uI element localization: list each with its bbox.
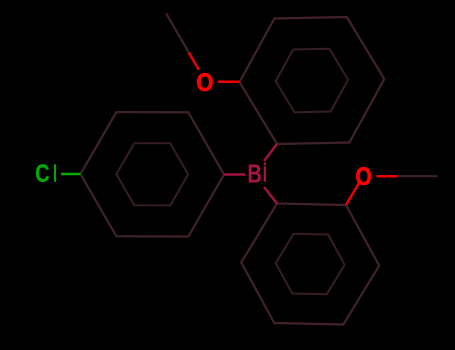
O1-C bond to ring 2 — [218, 81, 240, 84]
O1-CH3 bond red half — [189, 53, 199, 70]
O2-C bond to ring 3 — [346, 183, 359, 205]
svg-text:O: O — [196, 69, 213, 97]
svg-text:B: B — [247, 161, 261, 189]
svg-text:C: C — [35, 160, 49, 188]
ring 2 inner aromatic hexagon — [276, 49, 348, 113]
Cl-C bond — [61, 173, 81, 176]
Bi-C bond upper (to top methoxyphenyl) — [264, 144, 277, 161]
svg-text:O: O — [356, 163, 372, 191]
bismuth label Bi : letter i dot — [264, 162, 266, 165]
Bi-C bond lower (to bottom methoxyphenyl) — [264, 187, 277, 204]
benzene ring 1 (4-chlorophenyl) outline — [81, 112, 225, 236]
ring 1 inner aromatic hexagon — [116, 143, 188, 205]
bismuth label Bi : letter i bar — [264, 166, 266, 181]
ring 3 inner aromatic hexagon — [276, 234, 345, 295]
chlorine label Cl : letter l as bar — [54, 164, 56, 182]
O2-CH3 bond red half — [377, 175, 398, 178]
methyl C dark half (top OMe) — [167, 14, 189, 53]
Bi-C bond left (to chlorophenyl) — [224, 173, 246, 175]
benzene ring 2 (top 2-methoxyphenyl) outline — [240, 17, 385, 144]
methyl C dark half (right OMe) — [398, 175, 437, 177]
benzene ring 3 (bottom 2-methoxyphenyl) outline — [241, 204, 379, 325]
